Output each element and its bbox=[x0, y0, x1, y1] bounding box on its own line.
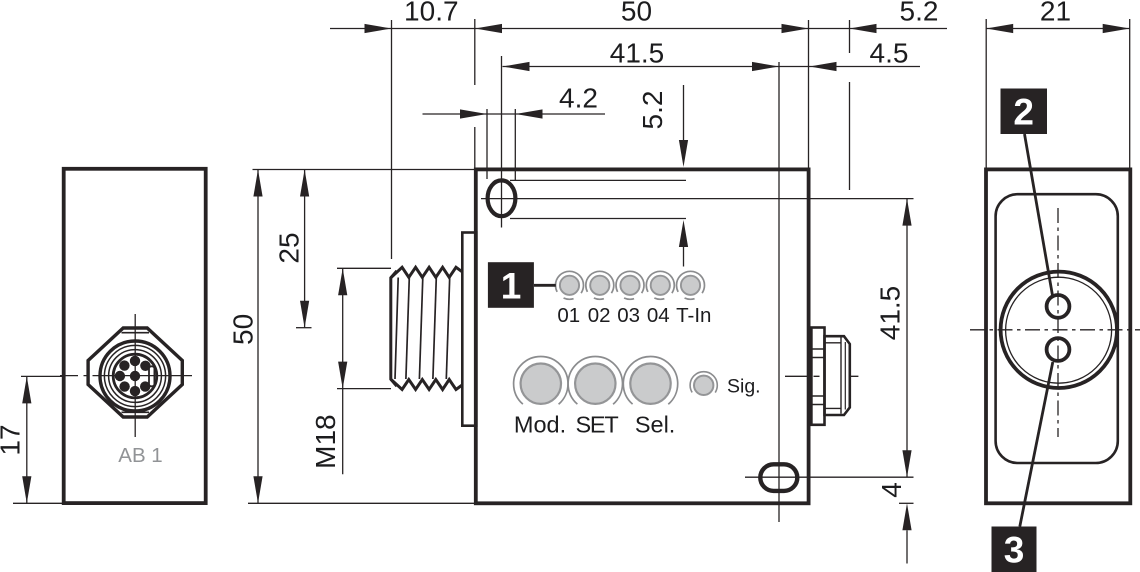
dimension 50 left bbox=[253, 169, 476, 171]
lens outer circle bbox=[1001, 272, 1117, 388]
housing right edge extension bbox=[808, 20, 810, 168]
M12 plug connector side view bbox=[785, 328, 858, 425]
connector crosshair horizontal bbox=[60, 375, 192, 377]
slot vertical center line bbox=[501, 56, 503, 228]
connector socket circle bbox=[113, 354, 157, 398]
dimension 25 bbox=[304, 170, 306, 328]
svg-text:02: 02 bbox=[588, 304, 611, 327]
M12 connector octagon nut bbox=[88, 328, 182, 417]
svg-text:1: 1 bbox=[501, 266, 522, 307]
svg-text:25: 25 bbox=[274, 232, 305, 263]
svg-text:04: 04 bbox=[647, 304, 670, 327]
left view housing rectangle bbox=[64, 169, 206, 503]
callout 1 square bbox=[488, 262, 534, 308]
svg-text:AB 1: AB 1 bbox=[118, 444, 162, 467]
svg-text:4.5: 4.5 bbox=[870, 38, 909, 69]
bottom slot vertical center line bbox=[778, 62, 780, 522]
10.7 left extension (thread face) bbox=[391, 20, 393, 259]
svg-text:3: 3 bbox=[1004, 530, 1025, 571]
callout 2 leader bbox=[1025, 134, 1053, 296]
dimension 4.2 bbox=[423, 113, 606, 115]
connector flange / hex nut bbox=[811, 328, 824, 425]
bottom thread zigzag bbox=[391, 379, 462, 389]
thread flank lines bbox=[395, 278, 398, 380]
dimension 50 top bbox=[475, 24, 502, 33]
svg-text:41.5: 41.5 bbox=[610, 38, 665, 69]
svg-text:Sig.: Sig. bbox=[727, 376, 761, 398]
svg-text:03: 03 bbox=[617, 304, 640, 327]
lens face rounded rectangle bbox=[996, 194, 1118, 463]
callout 2 square bbox=[1001, 89, 1048, 135]
plug face extension line bbox=[849, 20, 851, 190]
bottom slot hole (stadium) bbox=[760, 464, 797, 491]
nut chamfer detail lines bbox=[122, 332, 150, 334]
dimension 21 bbox=[985, 19, 987, 168]
svg-text:41.5: 41.5 bbox=[875, 286, 906, 341]
callout 3 square bbox=[992, 527, 1037, 572]
slot center line bbox=[481, 198, 914, 200]
svg-text:5.2: 5.2 bbox=[900, 0, 939, 27]
connector keyway bbox=[149, 366, 154, 386]
callout 3 leader bbox=[1020, 362, 1053, 527]
dimension 10.7 bbox=[330, 28, 947, 30]
receiver aperture circle bbox=[1047, 338, 1070, 361]
svg-text:17: 17 bbox=[0, 424, 26, 455]
slot groove top line bbox=[510, 179, 686, 181]
connector outer circle bbox=[100, 341, 170, 411]
housing left edge extension bbox=[474, 19, 476, 168]
dimension 4 bbox=[899, 502, 914, 504]
svg-text:4.2: 4.2 bbox=[559, 83, 598, 114]
main housing rectangle bbox=[476, 169, 809, 503]
svg-text:M18: M18 bbox=[310, 414, 341, 468]
svg-text:T-In: T-In bbox=[676, 304, 711, 327]
dimension 4.5 bbox=[810, 62, 837, 71]
svg-text:21: 21 bbox=[1040, 0, 1071, 27]
buttons row bbox=[514, 357, 678, 411]
transmitter aperture circle bbox=[1047, 295, 1070, 318]
svg-text:5.2: 5.2 bbox=[637, 91, 668, 130]
right view housing rectangle bbox=[986, 169, 1130, 503]
slot groove bottom line bbox=[510, 218, 686, 220]
svg-text:4: 4 bbox=[876, 482, 907, 498]
svg-text:2: 2 bbox=[1013, 92, 1034, 133]
dimension M18 bbox=[337, 267, 391, 269]
connector threaded barrel bbox=[825, 336, 850, 415]
svg-text:10.7: 10.7 bbox=[404, 0, 459, 27]
svg-text:Sel.: Sel. bbox=[635, 412, 676, 438]
Sig LED bbox=[690, 372, 717, 399]
connector thin circle bbox=[104, 345, 165, 406]
connector inner thin circle bbox=[109, 350, 162, 403]
connector crosshair vertical bbox=[134, 314, 136, 437]
top thread zigzag bbox=[391, 267, 462, 278]
horizontal center line dash-dot bbox=[970, 329, 1140, 331]
dimension 5.2 top right bbox=[850, 24, 877, 33]
callout 1 leader bbox=[534, 284, 556, 287]
M18 threaded barrel bbox=[391, 267, 462, 389]
svg-text:01: 01 bbox=[557, 304, 580, 327]
dimension 5.2 vertical bbox=[683, 85, 685, 140]
connector axis center line bbox=[785, 375, 858, 377]
slot left edge extension bbox=[486, 109, 488, 179]
vertical center line dash-dot bbox=[1057, 208, 1059, 437]
top slot hole (oval) bbox=[488, 180, 516, 216]
slot right edge extension bbox=[514, 109, 516, 181]
connector pins bbox=[115, 356, 151, 397]
svg-text:50: 50 bbox=[621, 0, 652, 27]
dimension 17 bbox=[13, 376, 63, 503]
indicator LEDs row bbox=[556, 271, 705, 299]
dimension 41.5 right bbox=[906, 199, 908, 478]
lens inner thin circle bbox=[1006, 277, 1112, 383]
dimension 41.5 top bbox=[503, 66, 921, 68]
svg-text:Mod.: Mod. bbox=[514, 412, 566, 438]
svg-text:SET: SET bbox=[575, 412, 618, 438]
svg-text:50: 50 bbox=[228, 314, 259, 345]
mounting flange plate bbox=[462, 233, 476, 426]
bottom slot horizontal center line bbox=[745, 476, 914, 478]
